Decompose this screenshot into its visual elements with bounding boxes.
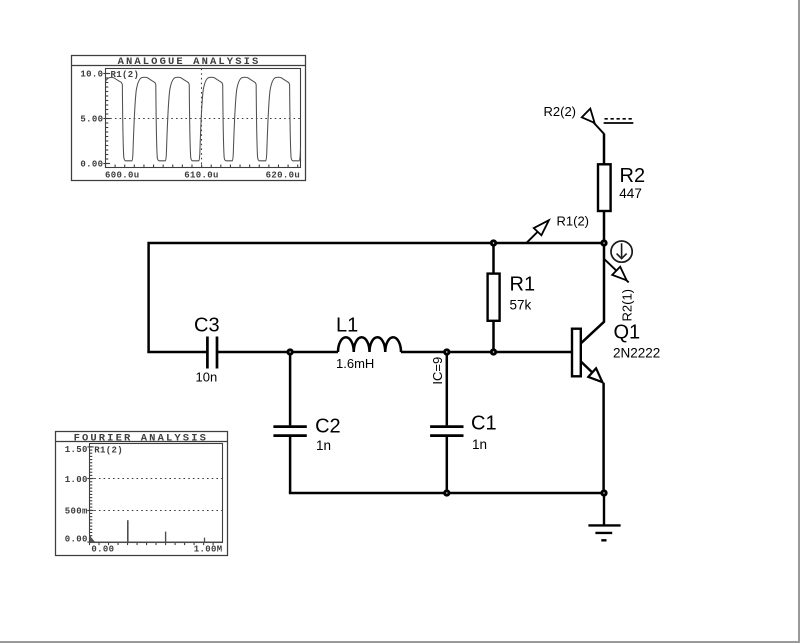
probe R1(2): leader line [527, 224, 546, 243]
junction dot node top R1 [491, 241, 495, 245]
svg-text:C2: C2 [315, 416, 341, 438]
svg-text:Q1: Q1 [614, 321, 641, 343]
svg-text:610.0u: 610.0u [184, 170, 219, 180]
svg-text:5.00: 5.00 [80, 115, 103, 125]
svg-text:R1(2): R1(2) [557, 213, 590, 228]
svg-text:57k: 57k [510, 297, 532, 312]
probe R2(1): leader line [604, 259, 628, 282]
fourier analysis plot frame and title [56, 432, 228, 556]
svg-text:0.00: 0.00 [91, 545, 114, 555]
wire: R1 top connection [492, 243, 495, 274]
resistor R2 [598, 164, 611, 211]
svg-text:C3: C3 [194, 314, 220, 336]
fourier plot axis labels [65, 445, 223, 554]
svg-text:1n: 1n [316, 438, 331, 453]
svg-text:R2(2): R2(2) [544, 104, 577, 119]
svg-text:1n: 1n [472, 437, 487, 452]
wire: C1 top connection [446, 352, 449, 425]
transistor Q1 base bar [572, 329, 581, 377]
probe R2(2): leader line [592, 121, 604, 134]
analogue waveform trace R1(2) [106, 77, 301, 161]
analogue plot axes, ticks and grid [103, 69, 300, 168]
junction dot node R1 bottom [491, 350, 495, 354]
analogue plot axis labels [80, 70, 300, 181]
wire: R2 top stub from probe point [603, 134, 606, 165]
probe R2(2): arrowhead [582, 109, 595, 123]
svg-text:2N2222: 2N2222 [613, 345, 660, 360]
wire: C2 top connection [289, 352, 292, 425]
junction dot node C1 top / IC [445, 350, 449, 354]
svg-text:1.50: 1.50 [65, 445, 88, 455]
probe R2(2): DC level dashed + solid lines [604, 119, 634, 123]
analogue analysis plot frame and title [72, 56, 306, 181]
svg-text:500m: 500m [65, 507, 88, 517]
capacitor C1 [430, 427, 463, 436]
svg-text:ANALOGUE ANALYSIS: ANALOGUE ANALYSIS [118, 56, 261, 68]
transistor Q1 emitter with arrow [581, 362, 603, 383]
junction dot node C2 top [288, 350, 292, 354]
fourier plot axes, ticks and grid [87, 444, 222, 546]
svg-text:0.00: 0.00 [80, 160, 103, 170]
wire: C1 bottom connection [446, 437, 449, 493]
svg-text:IC=9: IC=9 [430, 357, 445, 385]
fourier spectrum trace R1(2) [90, 520, 223, 542]
svg-text:620.0u: 620.0u [266, 170, 301, 180]
svg-text:447: 447 [619, 186, 642, 201]
svg-text:1.6mH: 1.6mH [336, 356, 374, 371]
capacitor C3 [207, 337, 217, 369]
svg-text:R1(2): R1(2) [94, 445, 123, 455]
svg-text:10.0: 10.0 [80, 70, 103, 80]
svg-text:0.00: 0.00 [65, 535, 88, 545]
svg-text:R1: R1 [510, 274, 536, 296]
wire: R1 bottom connection [492, 321, 495, 352]
svg-text:R2(1): R2(1) [619, 289, 634, 322]
probe R2(1): arrowhead [612, 267, 626, 281]
fourier DC component blob [90, 534, 97, 543]
junction dot node C1 bottom [445, 491, 449, 495]
svg-text:1.00M: 1.00M [194, 545, 223, 555]
wire: C3 left stub [147, 351, 206, 354]
wire: R2 bottom to node, collector drop [581, 211, 604, 344]
svg-text:600.0u: 600.0u [105, 170, 140, 180]
svg-text:10n: 10n [196, 370, 218, 385]
svg-text:R2: R2 [620, 165, 646, 187]
ground symbol [588, 493, 620, 540]
resistor R1 [488, 274, 500, 321]
probe R1(2): arrowhead [534, 220, 549, 235]
capacitor C2 [273, 427, 306, 436]
wire: mid horizontal node3 line (C3 right to Q1 base) [218, 351, 572, 354]
junction dot node top R2/collector [602, 241, 606, 245]
wire: C2 bottom connection [289, 437, 292, 493]
svg-text:FOURIER ANALYSIS: FOURIER ANALYSIS [74, 432, 208, 444]
svg-text:L1: L1 [336, 314, 358, 336]
wire: emitter down to ground rail [602, 383, 605, 493]
svg-text:1.00: 1.00 [65, 475, 88, 485]
junction dot node emitter/ground [602, 491, 606, 495]
inductor L1 [338, 337, 401, 352]
wire: feedback loop left vertical + top horizontal [149, 243, 604, 353]
wire: bottom ground rail [290, 492, 604, 493]
svg-text:C1: C1 [471, 412, 497, 434]
current probe circle with down arrow [611, 241, 632, 262]
